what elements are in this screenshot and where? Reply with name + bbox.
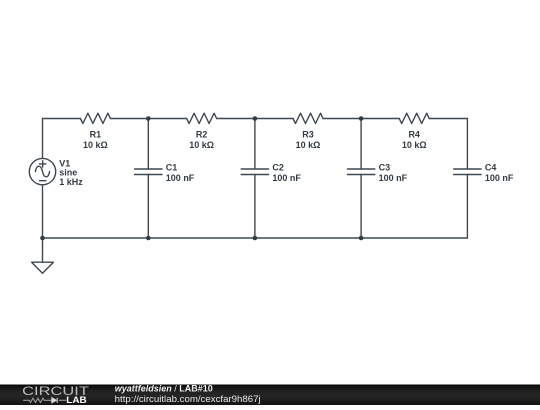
svg-text:10 kΩ: 10 kΩ <box>83 140 108 150</box>
svg-text:C3: C3 <box>379 162 391 172</box>
svg-text:LAB: LAB <box>66 395 86 405</box>
svg-text:R3: R3 <box>302 130 314 140</box>
svg-text:http://circuitlab.com/cexcfar9: http://circuitlab.com/cexcfar9h867j <box>115 394 261 404</box>
svg-text:100 nF: 100 nF <box>272 173 301 183</box>
svg-text:R2: R2 <box>196 130 208 140</box>
svg-text:C2: C2 <box>272 162 284 172</box>
svg-text:C4: C4 <box>485 162 497 172</box>
svg-text:C1: C1 <box>166 162 178 172</box>
svg-text:R4: R4 <box>408 130 420 140</box>
svg-text:10 kΩ: 10 kΩ <box>296 140 321 150</box>
svg-text:100 nF: 100 nF <box>485 173 514 183</box>
svg-text:100 nF: 100 nF <box>166 173 195 183</box>
svg-text:10 kΩ: 10 kΩ <box>189 140 214 150</box>
svg-text:100 nF: 100 nF <box>379 173 408 183</box>
svg-text:1 kHz: 1 kHz <box>59 177 83 187</box>
svg-text:10 kΩ: 10 kΩ <box>402 140 427 150</box>
svg-text:wyattfeldsien / LAB#10: wyattfeldsien / LAB#10 <box>115 383 213 393</box>
svg-text:R1: R1 <box>90 130 102 140</box>
